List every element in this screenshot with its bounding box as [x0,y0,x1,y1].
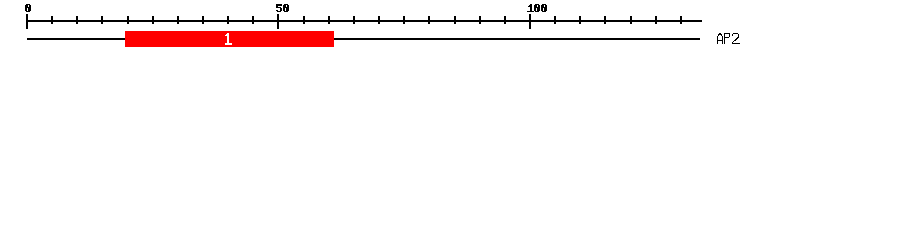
minor tick [579,16,581,24]
feature box label 1 (white) [225,33,232,45]
feature track connector line [27,38,700,40]
minor tick [454,16,456,24]
minor tick [353,16,355,24]
ruler label 50 [276,4,289,12]
minor tick [479,16,481,24]
minor tick [202,16,204,24]
minor tick [680,16,682,24]
minor tick [152,16,154,24]
ruler label 0 [25,4,31,12]
minor tick [630,16,632,24]
minor tick [378,16,380,24]
minor tick [227,16,229,24]
minor tick [504,16,506,24]
minor tick [101,16,103,24]
minor tick [252,16,254,24]
ruler main line [26,20,702,22]
minor tick [51,16,53,24]
minor tick [554,16,556,24]
ruler label 100 [527,4,547,12]
minor tick [655,16,657,24]
major tick 100 [529,14,531,29]
minor tick [177,16,179,24]
minor tick [428,16,430,24]
feature box (red, subfeature 1) [125,31,334,47]
minor tick [76,16,78,24]
major tick 50 [277,14,279,29]
minor tick [403,16,405,24]
minor tick [127,16,129,24]
track label AP2 [717,33,740,44]
minor tick [328,16,330,24]
minor tick [604,16,606,24]
major tick 0 [26,14,28,29]
minor tick [303,16,305,24]
